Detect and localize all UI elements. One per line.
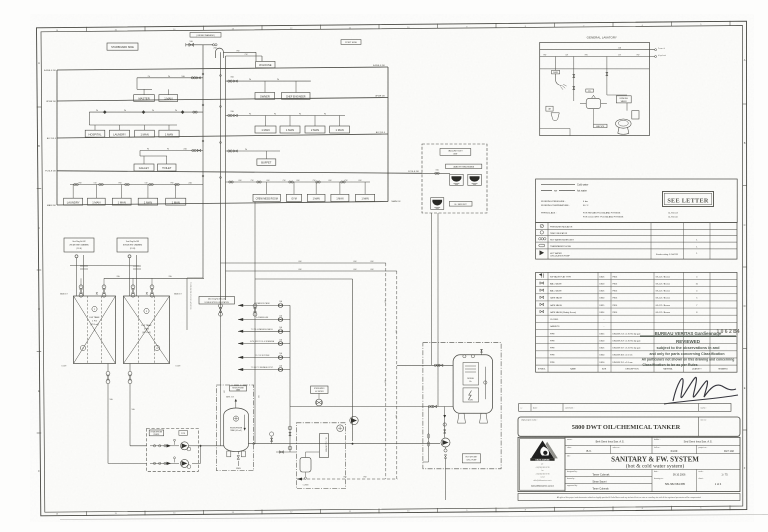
- border tick marks right with grid letters: [743, 103, 747, 105]
- deck2 stbd branch wire: [226, 80, 311, 82]
- cold feed wires into calorifier from sewage deck: [431, 213, 433, 365]
- pump discharge wires join: [189, 445, 201, 447]
- small calorifier dash-dot enclosure: [296, 423, 345, 489]
- distribution branch arrow EXPANSION TANK: [238, 304, 290, 306]
- deck line 2 (UP.BR DK): [57, 98, 388, 102]
- hot water gooseneck vent: [216, 48, 224, 58]
- room box TOILET: [158, 164, 177, 171]
- calorifier legs: [458, 413, 466, 423]
- valve V1 on top header: [189, 43, 194, 46]
- main transfer wire to calorifier: [352, 279, 354, 441]
- second bowtie valve on outlet run: [280, 451, 284, 454]
- project name box: [518, 417, 740, 436]
- room box GALLEY: [134, 164, 154, 171]
- inset header outlet node 1: [655, 49, 657, 51]
- valve on sewage feed wire: [435, 172, 437, 174]
- deck3 stbd branch wire: [226, 115, 346, 117]
- room box GYM stbd deck5: [293, 182, 295, 194]
- distribution branch arrow TO TK & WASHING MACH.: [238, 330, 290, 332]
- logo cell border: [520, 439, 566, 491]
- room box MASTER: [134, 95, 155, 102]
- room box 1 MAN stbd deck5: [339, 182, 341, 194]
- pump 1: [181, 442, 189, 450]
- valve on branch 3: [278, 329, 283, 334]
- pump 2: [181, 459, 189, 467]
- room box 1 MAN stbd deck5: [364, 182, 366, 194]
- border tick marks top with grid numbers: [86, 27, 88, 32]
- room box 1 MAN stbd deck5: [315, 182, 317, 194]
- top supply header wire: [186, 44, 213, 46]
- symbol legend table: [536, 223, 737, 260]
- collector lower fittings: [289, 407, 291, 453]
- HW return dashed riser 2: [396, 271, 398, 479]
- inset drop wire 1 with valves: [573, 57, 575, 102]
- deck4 wire into sewage unit: [422, 172, 450, 174]
- surveyor signature: [673, 377, 736, 401]
- inset shower label box: [552, 70, 560, 74]
- calorifier lower inlet valves: [428, 405, 430, 407]
- pump 1 relief tee: [174, 441, 176, 445]
- HW return bottom dashed wire: [297, 478, 398, 480]
- tank top valves: [79, 285, 83, 289]
- border tick marks bottom with grid numbers: [86, 511, 88, 516]
- room box CREW MESS ROOM stbd deck5: [266, 182, 268, 194]
- copyright strip: [518, 494, 740, 501]
- deck line 5 (MAIN DK): [57, 202, 388, 206]
- deck2 port rooms branch wire: [137, 77, 203, 79]
- title block grid lines: [564, 437, 566, 491]
- second riser drop with valve: [254, 202, 256, 444]
- valve on branch 6: [278, 367, 283, 372]
- inset calorifier label box: [586, 89, 594, 92]
- inset small calorifier vessel: [586, 98, 601, 108]
- deck line 3 (A/C DK 4): [57, 134, 388, 138]
- room box 2 MAN stbd deck3: [314, 116, 316, 127]
- symbol pressure indicator: [540, 224, 543, 227]
- label box UNISEX WASHRM: [190, 33, 221, 38]
- valve table header row: [536, 364, 737, 366]
- room box 1 MAN: [87, 198, 105, 205]
- calorifier heater panel: [463, 363, 479, 386]
- calorifier heating element box: [463, 388, 479, 402]
- symbol mixer unit: [539, 238, 541, 240]
- calorifier return wire with hose fittings: [428, 407, 430, 463]
- room box 1 MAN: [138, 198, 158, 205]
- tank 1 suction wire with valve: [107, 364, 109, 372]
- pump train 1 check valve: [167, 444, 172, 447]
- inset wash basin label box: [546, 106, 553, 111]
- hydrophore tank vessel: [224, 408, 249, 452]
- deck4 stbd branch wire: [226, 150, 281, 152]
- valve and pipe list table: [536, 272, 737, 372]
- distribution branch arrow To WHEELHSE: [238, 319, 290, 321]
- room box 1 MAN: [112, 198, 131, 205]
- small calorifier vertical tank: [319, 434, 328, 458]
- paper bottom edge shadow: [60, 515, 768, 520]
- symbol circulation pump: [540, 250, 545, 255]
- small calorifier vessel: [300, 457, 311, 472]
- label box PORT SIDE: [341, 40, 361, 45]
- legend panel box: [536, 179, 738, 223]
- label box hydrophore tank: [230, 386, 247, 391]
- symbol transparent hose: [539, 244, 545, 247]
- cold water riser: [202, 45, 204, 278]
- WC symbol 2: [468, 174, 482, 185]
- pump discharge fittings: [444, 449, 447, 452]
- label box vacuum unit: [440, 149, 471, 156]
- legend cold water line sample: [541, 183, 575, 185]
- label box EL SEW UNIT: [449, 202, 472, 207]
- WC symbol 1: [450, 174, 464, 185]
- inset cold water header wire: [540, 49, 655, 51]
- sterilizer filter symbol: [316, 399, 323, 406]
- room box 1 MAN: [159, 130, 179, 137]
- pump 2 relief tee: [174, 459, 176, 463]
- room box 1 MAN stbd deck3: [339, 116, 341, 127]
- hydrophore outlet run: [270, 443, 440, 445]
- hydrophore tank instrument circle: [233, 416, 238, 421]
- calorifier outlet string with check valve: [444, 413, 446, 438]
- sterilizer filter label box: [311, 386, 328, 393]
- tank 1 vent pipes with goosenecks: [76, 258, 78, 296]
- room box LAUNDRY: [64, 198, 83, 205]
- room box 1 MAN stbd deck3: [289, 116, 291, 127]
- FW tank no.2 starboard: [124, 296, 170, 364]
- valve V2 on top header with label: [213, 44, 215, 46]
- HW return feed wire 2: [226, 270, 397, 272]
- filling station drop wire: [186, 278, 188, 330]
- distribution branch arrow TO SUCT./ SEWAGE SYST.: [238, 369, 290, 371]
- inset toilet feed wire: [626, 103, 628, 111]
- room box CHEF ENGINEER: [295, 81, 297, 92]
- inset enclosure box: [540, 42, 650, 135]
- room box 1 MAN: [135, 130, 155, 137]
- tank filling cross wire: [70, 264, 139, 267]
- transfer pump: [350, 416, 358, 424]
- left spine wire connecting deck lines: [56, 70, 58, 205]
- valve pair near riser deck3 stbd: [228, 114, 230, 116]
- inset shower feed wire: [555, 57, 557, 71]
- hot water riser pair: [220, 52, 222, 305]
- pump train 2 check valve: [167, 462, 172, 465]
- sewage unit dashed enclosure: [422, 144, 487, 213]
- cold feed wire to transfer pump: [255, 278, 353, 280]
- label box pump duty: [179, 431, 188, 436]
- inset wash basin: [551, 113, 559, 121]
- deck-end vertical wire at starboard risers: [387, 67, 389, 202]
- distribution branch arrow TO CO2 SYSTEM: [238, 356, 290, 358]
- hydrophore tank legs: [227, 451, 231, 457]
- Delta Marine logo triangle: [531, 441, 554, 459]
- room box BUFFET: [265, 151, 267, 159]
- legend hot water line sample: [541, 190, 552, 192]
- calorifier vessel: [453, 355, 493, 414]
- inset grey water label box: [594, 124, 608, 128]
- inset drinking water label box: [616, 96, 631, 103]
- valve pair near riser deck3 port: [193, 111, 195, 113]
- label box STARBOARD SIDE: [107, 43, 138, 50]
- deck4 port rooms branch wire: [140, 150, 203, 152]
- room box HOSPITAL: [85, 130, 105, 137]
- hydrophore tank safety valve: [235, 402, 237, 409]
- valve fittings on deck5 port branch: [74, 183, 76, 185]
- room box 1 MAN stbd deck3: [265, 116, 267, 127]
- note box filling station drawing ref: [199, 297, 235, 305]
- inset toilet bowl: [616, 119, 632, 128]
- hydrophore pump unit dashed enclosure: [147, 428, 199, 471]
- hydrophore tank level gauge: [244, 415, 246, 431]
- riser reducer fittings at deck crossings: [202, 73, 204, 75]
- valve fittings on deck5 stbd branch: [229, 181, 231, 183]
- SEE LETTER approval stamp: [663, 192, 714, 207]
- calorifier top relief fitting: [481, 349, 483, 355]
- valve pair near riser deck2 stbd: [228, 80, 230, 82]
- small calorifier instrument circle: [337, 425, 344, 432]
- distribution collector wire: [289, 305, 291, 406]
- valve on branch 4: [278, 341, 283, 346]
- tank filling manifold wire: [104, 277, 204, 279]
- valve pair near riser deck4 port: [192, 149, 194, 151]
- hot water circulating pump: [441, 438, 450, 447]
- deck line 1 (A WHLS DK): [57, 67, 388, 70]
- HW return dashed riser 1: [385, 263, 387, 479]
- inset bottom room wire: [540, 128, 570, 130]
- room box OWNER: [264, 81, 266, 92]
- calorifier dash-dot enclosure: [423, 343, 501, 469]
- revision strip: [519, 404, 731, 412]
- small deck fittings on tank tops: [96, 292, 98, 295]
- hydrophore tank drain valve: [237, 452, 239, 455]
- deck5 port rooms branch wire: [70, 184, 203, 186]
- title block main box: [518, 437, 740, 491]
- HW riser drop valves: [220, 305, 222, 446]
- label box water purifier area: [446, 164, 482, 168]
- valve on branch 1: [278, 303, 283, 308]
- inset drop wire 2 with valves: [606, 57, 608, 96]
- pump train 2 wire: [150, 462, 179, 464]
- distribution branch arrow GYM, SW POOL & SPA AREA: [238, 343, 290, 345]
- pressure switch valve on outlet run: [270, 432, 274, 436]
- tank vent label box starboard: [117, 238, 148, 252]
- tank 2 suction wire with valve: [129, 364, 131, 372]
- room box W.HOUSE: [256, 61, 275, 67]
- label box hydrophore pumps: [149, 430, 164, 436]
- deck line 4 (FCSLE DK): [57, 171, 422, 174]
- room box LAUNDRY: [109, 130, 129, 137]
- inset toilet cistern: [632, 111, 639, 119]
- calorifier top connections: [463, 355, 466, 358]
- riser jog wire to filling station: [187, 277, 203, 279]
- valve pair near riser deck4 stbd: [228, 150, 230, 152]
- pump train 1 wire: [150, 445, 179, 447]
- symbol temp indicator: [540, 231, 543, 234]
- WC symbol 3: [431, 198, 444, 210]
- inset ceiling divider wire: [540, 68, 650, 70]
- HW return feed wire 1: [221, 262, 386, 264]
- inset hot water header wire: [540, 56, 655, 58]
- room box 1 MAN: [166, 198, 186, 205]
- label box hot water circ pump: [462, 454, 480, 463]
- valve on branch 2: [278, 317, 283, 322]
- logo DELTA MARINE text: [530, 458, 554, 461]
- FW tank no.1 port: [74, 296, 116, 364]
- calorifier upper inlet wire with valves: [397, 364, 453, 366]
- border tick marks left with grid letters: [37, 106, 42, 108]
- deck3 port rooms branch wire: [89, 111, 203, 113]
- valve on branch 5: [278, 355, 283, 360]
- room box 1 MAN: [159, 95, 178, 102]
- tank 2 vent pipes with goosenecks: [129, 258, 131, 296]
- hydrophore discharge wire: [248, 443, 270, 445]
- valve pair near riser deck2 port: [191, 77, 193, 79]
- deck5 stbd branch wire: [226, 181, 371, 183]
- deck1 branch wires to wheelhouse: [223, 51, 256, 53]
- tank vent label box port: [64, 238, 94, 252]
- inset shower pipe and head: [556, 74, 562, 85]
- hydrophore feed wire into tank: [201, 445, 224, 447]
- inset header outlet node 2: [655, 56, 657, 58]
- hydrophore tank dash-dot enclosure: [216, 385, 253, 471]
- calorifier level gauge: [484, 367, 486, 400]
